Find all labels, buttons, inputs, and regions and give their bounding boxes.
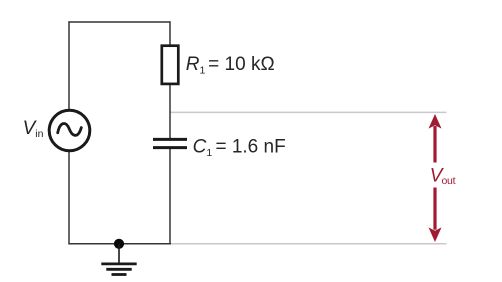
svg-text:R1 = 10 kΩ: R1 = 10 kΩ — [186, 54, 275, 76]
Vout arrow (double-headed) — [429, 114, 442, 242]
wire left lower — [68, 152, 70, 245]
wire left upper — [68, 21, 70, 110]
wire resistor to capacitor — [169, 85, 171, 140]
capacitor C1 — [153, 138, 187, 141]
wire right upper (top to resistor) — [169, 21, 171, 45]
wire bottom — [69, 243, 172, 245]
wire top — [69, 21, 171, 23]
source U1 (Vin sine source) — [49, 110, 90, 151]
ground — [101, 244, 136, 275]
wire capacitor to bottom — [169, 148, 171, 245]
node Vout top rail (gray) — [170, 111, 447, 113]
resistor R1 — [162, 46, 179, 84]
sine symbol — [58, 124, 82, 136]
junction dot — [114, 239, 124, 249]
node Vout bottom rail (gray) — [170, 243, 447, 245]
